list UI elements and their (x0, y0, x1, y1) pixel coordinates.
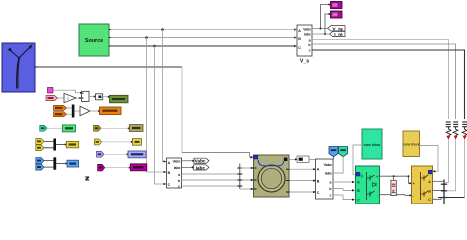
terminator block (yellow small) (133, 139, 142, 146)
scope1 (331, 2, 343, 9)
svg-text:V_s: V_s (300, 59, 309, 65)
inverter port g (428, 170, 432, 174)
svg-text:conv block: conv block (364, 143, 381, 147)
machine stator ticks (254, 168, 290, 192)
from tag Ia2 (blue) (36, 164, 44, 170)
bus tick b (237, 179, 242, 181)
rectifier port labels (357, 174, 379, 202)
wire B2 b to rectifier B (333, 189, 355, 192)
wire green conv to rectifier g (353, 145, 362, 174)
wires yellow tags to mux2 (44, 141, 53, 147)
wires orange tags to mux1 (67, 108, 72, 114)
display Q (dark magenta) (130, 164, 147, 171)
control block inverter (yellow) (403, 131, 420, 157)
load branch Lc (462, 122, 467, 198)
svg-text:B: B (357, 188, 360, 193)
mux M3 (53, 157, 56, 169)
wire bus to machine C (240, 188, 254, 190)
mux M1 (72, 105, 75, 118)
turbine output port (35, 66, 38, 68)
grid bus tick a (441, 183, 447, 185)
wire machine b to B2 (290, 180, 317, 182)
scope2 (331, 11, 343, 18)
wire phase2 source to V_s B (111, 36, 298, 38)
wire Iabc out to scope2 and I_re (312, 13, 332, 35)
from tag Vdc2 (yellow) (36, 145, 44, 151)
svg-text:1: 1 (67, 97, 69, 101)
wire B1 Vabc to goto tag (182, 160, 196, 162)
wire bus to machine A (240, 167, 254, 169)
svg-text:C: C (317, 191, 320, 195)
wire phase3 source to V_s C (111, 45, 298, 47)
wire machine c to B2 (290, 191, 317, 193)
power block (orange) (100, 107, 122, 115)
wire cap stubs (393, 176, 395, 195)
V-I measurement B2 (316, 159, 334, 199)
junction node phase2 (145, 36, 148, 39)
svg-text:A: A (298, 29, 301, 33)
svg-text:A: A (357, 179, 360, 184)
wire gain1 to switch (76, 97, 82, 99)
svg-text:C: C (428, 197, 431, 202)
constant magenta block (48, 88, 53, 93)
wire inverter A out (433, 180, 445, 182)
wire selector to goto tags (309, 158, 334, 160)
wire phase b V_s to grid (312, 44, 456, 119)
goto tag I_re (330, 31, 346, 38)
goto tag Vabc2 (blue pin) (329, 147, 338, 157)
wire phase3 drop to measurement1 C (155, 46, 167, 185)
svg-text:c: c (330, 193, 332, 197)
wire mux3 to blue scope (56, 162, 68, 164)
wire phase c V_s to grid (312, 50, 465, 119)
wind turbine block (2, 43, 35, 92)
svg-text:C: C (298, 46, 301, 50)
gain G1 (64, 93, 76, 102)
wire saturation to goto wind (103, 96, 111, 98)
svg-text:Vabc: Vabc (303, 27, 311, 31)
svg-text:c: c (178, 185, 180, 189)
from tag wm (teal) (40, 125, 47, 131)
from tag Vdc1 (yellow) (36, 139, 44, 145)
wire Vabc out to scope1 and V_re (312, 3, 332, 29)
svg-text:Iabc: Iabc (174, 166, 181, 170)
rectifier port g (356, 172, 362, 177)
svg-text:Vabc: Vabc (324, 163, 332, 167)
goto tag Vabc (194, 158, 209, 163)
wire B1 a to bus (182, 173, 240, 175)
wire B2 c to rectifier C (333, 195, 355, 201)
svg-text:Iabc: Iabc (325, 171, 332, 175)
svg-text:c: c (309, 49, 311, 53)
wire B1 Iabc to goto tag (182, 166, 195, 168)
wire inverter C out (433, 198, 442, 200)
wire phase a V_s to grid (312, 40, 449, 120)
wire magenta tag to magenta display (105, 167, 132, 169)
wire lavender tag to lavender display (104, 153, 129, 155)
source port stubs (109, 30, 111, 47)
svg-text:g: g (361, 173, 363, 177)
stator bus vertical (239, 164, 241, 190)
inverter bridge (yellow) (412, 166, 433, 204)
saturation block (96, 94, 103, 100)
tiny annotation marker (85, 177, 89, 180)
from tag m1 (lavender) (97, 151, 105, 157)
svg-text:Source: Source (85, 38, 103, 44)
from tag wind speed (pink) (46, 96, 58, 101)
wire gain2 to power block (90, 110, 101, 112)
control block rectifier (green) (362, 129, 382, 159)
from tag pulses (yellow) (94, 139, 101, 145)
wire switch to saturation (89, 95, 96, 97)
from tag Te (khaki) (94, 125, 101, 131)
wire pink tag to gain1 (58, 97, 64, 99)
bus selector block (297, 156, 309, 162)
wires blue tags to mux3 (44, 161, 53, 168)
svg-text:a: a (330, 180, 332, 184)
wire machine m to selector (287, 158, 298, 160)
svg-text:B: B (317, 179, 320, 183)
grid bus tick b (441, 190, 447, 192)
wire B1 b to machine B (182, 179, 254, 181)
source block (79, 24, 109, 56)
wire machine a to B2 (290, 168, 317, 170)
svg-text:Iabc: Iabc (196, 165, 206, 170)
svg-text:I_re: I_re (334, 32, 343, 38)
wire B2 a to rectifier A (333, 181, 355, 183)
svg-text:A: A (317, 167, 320, 171)
wire mux1 to gain2 (74, 110, 79, 112)
grid bus vertical (443, 180, 445, 205)
bus tick a (237, 167, 242, 169)
display machine speed (lavender) (128, 151, 146, 158)
asynchronous machine block (254, 155, 290, 197)
wire khaki tag to khaki display (101, 127, 130, 129)
scope Vdc (yellow) (66, 141, 78, 147)
mux M2 (53, 139, 56, 151)
scope currents (blue) (67, 160, 79, 167)
load branch Lb (447, 122, 458, 191)
goto block wind (olive green) (110, 95, 129, 103)
rectifier bridge (green) (356, 166, 380, 204)
machine port Tm (254, 155, 258, 159)
goto tag V_re (328, 26, 346, 33)
dc link capacitor (391, 180, 396, 195)
wire inverter B out (433, 190, 445, 192)
from tag Ire (orange) (54, 112, 67, 117)
svg-text:Vabc: Vabc (195, 159, 206, 164)
wire blue pin down (333, 157, 335, 160)
wire phase2 drop to measurement1 B (147, 38, 167, 174)
svg-text:b: b (178, 179, 180, 183)
svg-text:B: B (428, 188, 431, 193)
wire dc plus rail (380, 175, 413, 184)
wire B1 c to bus (182, 185, 240, 187)
V-I measurement B1 (167, 158, 182, 189)
gain G2 (80, 106, 90, 115)
machine port m (284, 158, 288, 161)
load branch La (444, 122, 451, 183)
wire mux2 to scope yellow (56, 143, 67, 145)
junction dc cap top (393, 175, 395, 177)
V-I measurement V_s (297, 25, 312, 56)
from tag Q (dark magenta) (98, 164, 105, 171)
switch block (82, 91, 90, 101)
wire teal pin down (334, 157, 343, 173)
grid bus tick c (441, 197, 447, 199)
label V_s (300, 59, 309, 65)
svg-text:B: B (298, 37, 301, 41)
bus tick c (237, 185, 242, 187)
from tag Vre (orange) (54, 105, 67, 110)
goto tag Iabc2 (teal pin) (339, 147, 348, 157)
display Te (khaki) (129, 125, 143, 132)
svg-text:C: C (357, 198, 360, 203)
svg-text:conv block: conv block (403, 143, 420, 147)
wire constant to switch (53, 90, 83, 94)
wire phase1 source to V_s A (111, 28, 298, 30)
wire teal tag to green display (47, 127, 62, 129)
wire turbine Tm to machine (38, 67, 254, 159)
svg-text:b: b (329, 187, 331, 191)
junction node phase1 (161, 28, 164, 31)
wire phase1 drop to measurement1 A (163, 30, 167, 163)
bus tick a2 (237, 173, 242, 175)
from tag Ia1 (blue) (36, 158, 44, 164)
display wm (green) (62, 125, 75, 132)
svg-text:Iabc: Iabc (304, 32, 311, 36)
goto tag Iabc (194, 165, 210, 171)
junction node phase3 (153, 45, 156, 48)
inverter port labels (413, 179, 432, 202)
wire pulses tag to yellow terminator (102, 141, 134, 143)
wire dc minus rail (380, 194, 413, 196)
svg-text:A: A (428, 179, 431, 184)
svg-text:a: a (178, 173, 180, 177)
wire grid return (438, 197, 465, 199)
wire yellow conv to inverter g (420, 146, 439, 173)
svg-text:Vabc: Vabc (173, 160, 181, 164)
